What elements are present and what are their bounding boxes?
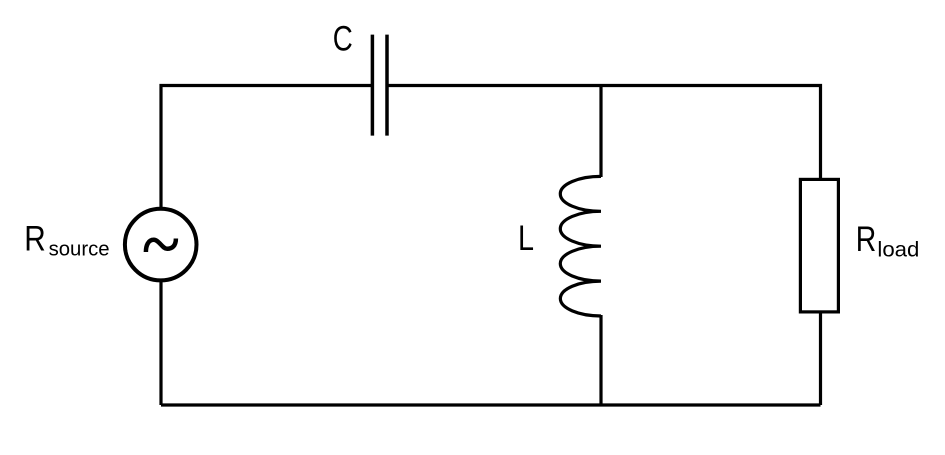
- inductor L coil: [560, 176, 601, 316]
- svg-text:R: R: [24, 219, 46, 258]
- wire: middle branch below inductor: [599, 315, 602, 405]
- AC source circle: [125, 209, 197, 281]
- svg-text:L: L: [518, 219, 534, 258]
- svg-text:C: C: [333, 19, 353, 58]
- wire: middle branch above inductor: [599, 86, 602, 178]
- wire: right branch below load resistor: [819, 312, 822, 405]
- capacitor C plates: [372, 35, 387, 136]
- resistor R_load body: [800, 179, 838, 312]
- wire: bottom rail: [161, 403, 821, 406]
- wire: top-left segment from source branch to capacitor: [161, 86, 371, 210]
- AC source sine symbol: [146, 239, 176, 253]
- wire: top-right segment from capacitor to load branch: [389, 86, 821, 180]
- wire: left branch below source: [159, 281, 162, 405]
- svg-text:R: R: [856, 220, 877, 259]
- svg-text:source: source: [49, 239, 110, 261]
- svg-text:load: load: [877, 239, 919, 262]
